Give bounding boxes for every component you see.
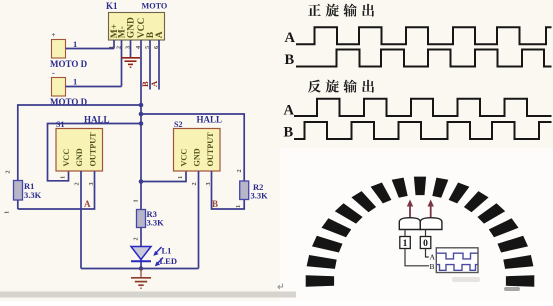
label: forward rotation output (Chinese)	[308, 4, 374, 17]
svg-text:A: A	[430, 253, 436, 262]
svg-text:A: A	[149, 80, 159, 87]
K1 pin 3 stub	[130, 40, 132, 57]
svg-text:1: 1	[403, 239, 408, 249]
svg-text:0: 0	[423, 239, 428, 249]
connector MOTO D #1 (+)	[50, 31, 88, 69]
gray smear bottom edge	[0, 292, 296, 298]
K1 pin 5 wire net B	[149, 40, 151, 90]
stub dome left to box 1	[404, 230, 406, 237]
ground symbol at bottom	[131, 269, 151, 289]
VCC rail to S1 (HALL rail)	[48, 124, 142, 181]
paragraph return mark	[278, 284, 283, 289]
svg-text:3.3K: 3.3K	[24, 190, 42, 200]
S1 pin3 OUTPUT wire (net A) to R1	[18, 171, 95, 209]
svg-text:2: 2	[5, 170, 12, 173]
label: reverse rotation output (Chinese)	[308, 80, 374, 93]
resistor R2 3.3K	[240, 181, 268, 201]
connector MOTO D #2 (-)	[50, 69, 88, 108]
svg-text:3: 3	[88, 182, 95, 185]
svg-text:1: 1	[177, 176, 184, 179]
waveform B forward	[296, 50, 552, 67]
S2 pin2 GND wire down to ground rail	[198, 171, 200, 269]
encoder disc arc segments	[306, 177, 535, 287]
svg-text:1: 1	[133, 199, 140, 202]
svg-text:A: A	[84, 199, 91, 209]
svg-text:B: B	[430, 262, 435, 271]
svg-text:1: 1	[4, 211, 11, 214]
svg-text:1: 1	[235, 205, 242, 208]
hall sensor S1	[56, 115, 110, 172]
ground under K1 pin3	[121, 57, 140, 68]
svg-text:2: 2	[236, 169, 243, 172]
resistor R1 3.3K	[14, 181, 42, 201]
svg-text:LED: LED	[160, 256, 177, 266]
svg-text:HALL: HALL	[197, 115, 223, 125]
svg-text:VCC: VCC	[62, 149, 71, 167]
wire MOTO D #2 to K1 pin2, pin number 1	[66, 86, 122, 88]
junction dots on VCC column	[139, 103, 144, 108]
arrow up right	[428, 200, 434, 218]
svg-text:OUTPUT: OUTPUT	[206, 132, 215, 167]
VCC wire to S2	[141, 171, 186, 182]
arrow up left	[407, 200, 413, 218]
K1 pin 4 stub (VCC column)	[140, 40, 142, 210]
waveform A reverse	[294, 99, 552, 116]
svg-text:B: B	[285, 52, 295, 68]
svg-text:B: B	[212, 199, 218, 209]
svg-text:1: 1	[73, 77, 77, 87]
svg-text:-: -	[52, 69, 55, 78]
VCC rail to R1	[18, 105, 141, 181]
ground rail at bottom	[81, 268, 199, 270]
line from box0 (A)	[426, 249, 429, 258]
photo sensor right	[420, 218, 442, 230]
svg-text:HALL: HALL	[84, 115, 110, 125]
svg-text:A: A	[284, 103, 295, 119]
svg-text:2: 2	[133, 237, 140, 240]
svg-text:A: A	[285, 30, 296, 46]
svg-text:3.3K: 3.3K	[251, 191, 269, 201]
svg-text:B: B	[284, 125, 294, 141]
S1 pin2 GND wire down to ground rail	[80, 171, 82, 269]
connector K1	[106, 1, 167, 49]
svg-text:VCC: VCC	[180, 149, 189, 167]
svg-text:L1: L1	[162, 246, 172, 256]
stub dome right to box 0	[425, 230, 427, 237]
resistor R3 3.3K	[137, 209, 165, 228]
svg-text:2: 2	[74, 182, 81, 185]
svg-text:3.3K: 3.3K	[147, 218, 165, 228]
svg-text:S2: S2	[174, 120, 182, 129]
junction dot LED-ground	[139, 266, 143, 270]
svg-text:MOTO: MOTO	[142, 2, 168, 11]
box digit 0	[420, 237, 431, 250]
wire R3 to LED	[140, 228, 142, 269]
photo sensor left	[399, 218, 420, 230]
line from box1 (B)	[405, 249, 429, 266]
svg-text:GND: GND	[75, 148, 84, 166]
svg-text:+: +	[52, 31, 56, 39]
svg-text:OUTPUT: OUTPUT	[89, 132, 98, 167]
svg-text:S1: S1	[56, 120, 64, 129]
svg-text:MOTO D: MOTO D	[50, 59, 88, 69]
VCC rail to R2 column	[141, 114, 244, 181]
wire MOTO D #1 to K1 pin1, pin number 1	[66, 48, 115, 50]
svg-text:A: A	[155, 31, 165, 38]
K1 pin 1 stub	[113, 40, 115, 49]
svg-text:1: 1	[73, 39, 77, 49]
svg-text:2: 2	[191, 182, 198, 185]
oscilloscope box	[436, 248, 478, 273]
svg-text:GND: GND	[127, 17, 137, 38]
svg-text:3: 3	[205, 182, 212, 185]
R1 bottom wire to net A	[17, 200, 19, 209]
K1 pin 2 stub	[121, 40, 123, 87]
svg-text:K1: K1	[106, 1, 118, 11]
svg-text:GND: GND	[193, 148, 202, 166]
waveform B reverse	[294, 122, 552, 139]
svg-text:1: 1	[60, 176, 67, 179]
waveform A forward	[296, 27, 552, 44]
box digit 1	[400, 237, 411, 250]
hall sensor S2	[174, 115, 223, 172]
K1 pin 6 wire net A	[158, 40, 160, 90]
S2 pin3 OUTPUT wire (net B) to R2	[212, 171, 245, 209]
LED L1	[131, 246, 177, 267]
